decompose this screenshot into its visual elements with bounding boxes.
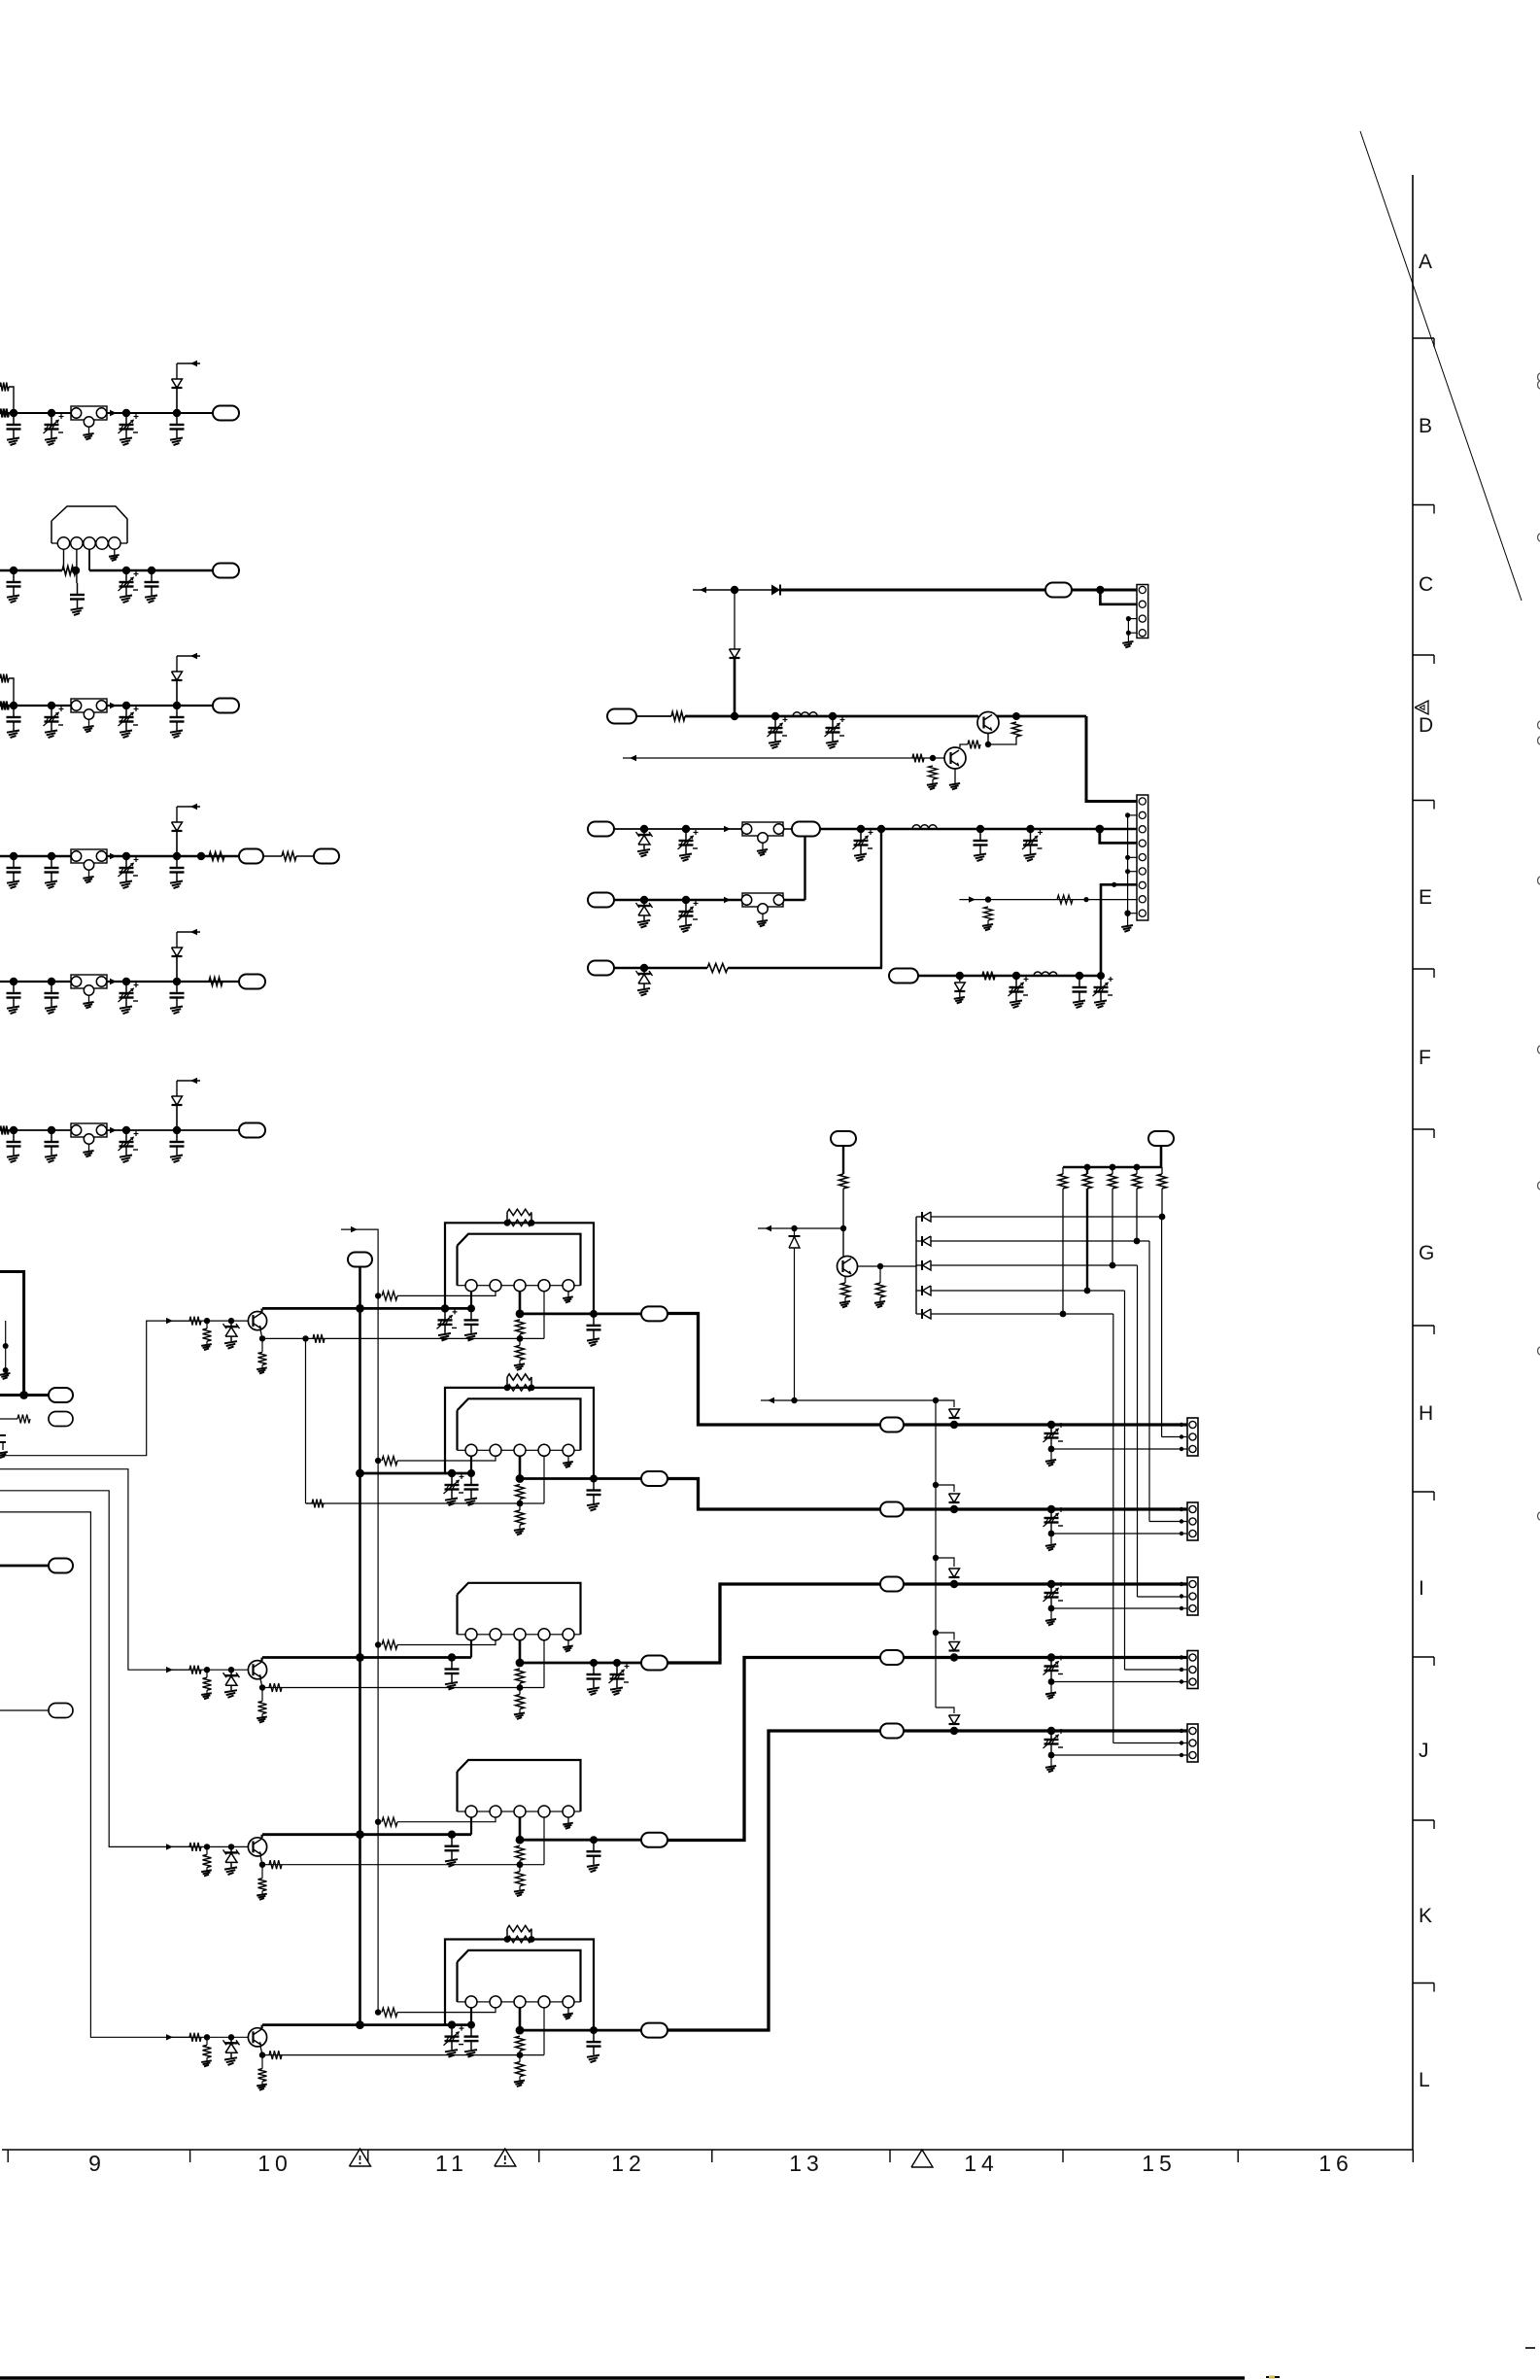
wire R19 to node [842, 1189, 844, 1228]
IC U5 pin5 circle [563, 1996, 574, 2008]
node stage4 outcap [590, 1836, 598, 1844]
page bottom right dash [1525, 2347, 1535, 2349]
svg-text:12: 12 [611, 2151, 646, 2176]
wire left pill1 feed [0, 1394, 49, 1397]
node stage3 tap [375, 1641, 381, 1647]
node row3 A [10, 702, 17, 709]
wire IC FL1 pin1 to line [63, 549, 65, 570]
wire U5 pin3 output [519, 2008, 522, 2030]
IC U2 audio amplifier outline [458, 1398, 581, 1450]
trimmer capacitor CV1 row1 [51, 413, 52, 425]
svg-text:11: 11 [435, 2151, 468, 2176]
zener diode D8 E1 [643, 829, 645, 835]
node row4 E [197, 852, 205, 860]
node stage1 base B [228, 1318, 234, 1324]
right edge cut text fragment [1538, 737, 1540, 744]
resistor Re5 emitter [261, 2055, 263, 2069]
wire row J main from amp [667, 1658, 880, 1841]
connector CN3 row H [1187, 1418, 1198, 1456]
border row tick [1413, 1983, 1434, 1984]
resistor Ro5b stage5 [519, 2055, 521, 2062]
node row6 A [10, 1126, 17, 1134]
wire row I main from amp [667, 1479, 880, 1510]
svg-text:G: G [1419, 1242, 1434, 1264]
wire bias rail vertical [377, 1295, 379, 2012]
node row1 D [173, 409, 181, 417]
wire diode D7 to D row [734, 658, 736, 716]
ceramic filter CF5 row6 [71, 1123, 107, 1137]
wire CN2 pin8 sense line [959, 899, 1137, 901]
resistor R4 row3 upper stub [0, 674, 9, 683]
capacitor C10 row4 [176, 856, 178, 868]
net label left pill3 [49, 1559, 73, 1573]
IC U2 pin4 circle [538, 1444, 550, 1456]
resistor R3 row2 on line [62, 567, 76, 575]
resistor Rf2a feedback [507, 1374, 531, 1380]
border row tick [1413, 337, 1434, 339]
wire stage1 input route [0, 1321, 189, 1456]
node row J2 var [1047, 1727, 1055, 1735]
border column tick [189, 2150, 191, 2162]
node stage3 rail [356, 1653, 364, 1662]
resistor R14 Q2 base bias [929, 766, 938, 779]
node U5 loop a [504, 1936, 511, 1943]
node D row junction main [731, 712, 738, 720]
node stage2 fb [517, 1500, 524, 1507]
wire row2 main left [0, 569, 62, 572]
net label left pill1 [49, 1388, 73, 1402]
node row6 D [173, 1126, 181, 1134]
wire U5 feedback loop [445, 1940, 594, 2031]
capacitor C4 row2 pin2 [77, 583, 79, 595]
wire Q3 base right [858, 1265, 917, 1267]
wire Q8 emitter [260, 2046, 262, 2054]
node row I2 var [1047, 1580, 1055, 1588]
IC FL1 pin5 ground stub [114, 549, 116, 555]
wire G2 riser to CN2 pin7 [1101, 884, 1114, 976]
IC U4 pin2 circle [490, 1806, 501, 1817]
zener diode D9 E2 [643, 900, 645, 906]
node stage2 pin1cap [467, 1469, 475, 1477]
border row tick [1413, 1325, 1434, 1327]
IC U3 pin3 circle [514, 1629, 526, 1640]
trimmer capacitor CV19 row I2 [1050, 1584, 1052, 1593]
node stage5 output [516, 2026, 525, 2035]
node row3 C [122, 702, 130, 709]
capacitor C7 row3 [176, 706, 178, 717]
node U2 loop b [529, 1385, 535, 1392]
right edge cut text fragment [1538, 1512, 1540, 1520]
transistor Q4 stage1 [248, 1312, 266, 1330]
border row tick [1413, 800, 1434, 802]
diode D2 row3 with takeoff arrow [176, 680, 178, 706]
trimmer capacitor CV8 row6 [125, 1130, 127, 1142]
node H feed B [933, 1397, 939, 1403]
net label E1 input [588, 822, 614, 837]
trimmer capacitor CV17 row H [1050, 1425, 1052, 1433]
zener diode Dz3 base [230, 1670, 232, 1675]
capacitor Co3 stage3 [593, 1663, 595, 1674]
wire staircase jog 4 [936, 1707, 954, 1713]
resistor R10 D row [671, 712, 685, 721]
svg-text:C: C [1419, 573, 1433, 596]
wire stage1 collector line [262, 1307, 471, 1310]
svg-text:J: J [1419, 1740, 1429, 1762]
IC U3 pin5 ground stub [567, 1640, 569, 1646]
wire U4 pin3 output [519, 1817, 522, 1840]
IC U5 pin3 circle [514, 1996, 526, 2008]
wire left stub vertical [5, 1321, 7, 1373]
node E1 B [682, 825, 690, 833]
resistor Rb4b base bias [206, 1846, 208, 1854]
border column tick [367, 2150, 369, 2162]
resistor R34 emitter series [269, 1860, 282, 1869]
right edge cut text fragment [1538, 1182, 1540, 1190]
capacitor Cs4a [451, 1835, 453, 1846]
node stage3 outvar [613, 1659, 621, 1667]
node E1 to F drop [877, 825, 885, 833]
resistor R13 Q2 base [912, 754, 924, 763]
resistor R15 pin8 bias [984, 907, 993, 920]
connector CN2 9pin [1137, 795, 1148, 920]
IC FL1 pin 1 circle [57, 537, 69, 549]
trimmer capacitor CVo3 [616, 1663, 618, 1674]
border row tick [1413, 1491, 1434, 1493]
svg-text:F: F [1419, 1047, 1431, 1069]
node stage1 base A [204, 1318, 210, 1324]
IC FL1 pin 5 circle [109, 537, 120, 549]
signal arrow row6 [110, 1127, 117, 1133]
connector CN6 row J [1187, 1651, 1198, 1689]
node row4 C [122, 852, 130, 860]
wire diode D16 run [931, 1290, 1125, 1292]
transistor Q1 D row [977, 712, 999, 734]
svg-text:B: B [1419, 415, 1432, 437]
node C row at connector [1096, 586, 1104, 594]
trimmer capacitor CVs1 [444, 1308, 446, 1320]
resistor R16 pin8 series [1057, 895, 1073, 904]
wire U3 pin1 lead [470, 1640, 472, 1658]
signal arrow row5 [110, 979, 117, 984]
node stage1 rail [356, 1304, 364, 1313]
border frame right vertical line [1412, 175, 1414, 2150]
resistor Re3 emitter [261, 1688, 263, 1702]
svg-text:10: 10 [257, 2151, 292, 2176]
inductor L3 G2 [1034, 972, 1042, 976]
node pin8 line B [1083, 897, 1088, 902]
signal arrow row4 [110, 853, 117, 859]
connector CN5 row I2 [1187, 1577, 1198, 1615]
wire Q4 collector [261, 1308, 263, 1311]
node stage3 fb [517, 1684, 524, 1691]
node stage2 incap [448, 1469, 456, 1477]
node stage2 tap [375, 1458, 381, 1464]
inductor L2 E1 [912, 825, 920, 829]
resistor Ro3a stage3 [516, 1669, 525, 1683]
IC FL1 pin 2 circle [71, 537, 83, 549]
wire Q8 collector [261, 2025, 263, 2028]
svg-text:H: H [1419, 1402, 1433, 1425]
resistor R1 row1 upper stub [0, 383, 9, 392]
resistor R30 stage1 pin4 [313, 1334, 325, 1343]
node row1 A [10, 409, 17, 417]
border column tick [538, 2150, 540, 2162]
wire diode D17 run [931, 1313, 1113, 1315]
svg-text:E: E [1419, 886, 1432, 909]
resistor R9 row6 on line [0, 1126, 9, 1135]
resistor Ro2b stage2 [519, 1503, 521, 1510]
net label row J [880, 1650, 904, 1665]
zener diode Dz1 base [230, 1321, 232, 1327]
net label row I2 [880, 1577, 904, 1592]
capacitor C15 row6 [51, 1130, 52, 1142]
signal arrow row3 [110, 703, 117, 708]
capacitor Co4 stage4 [593, 1840, 595, 1851]
border row tick [1413, 1656, 1434, 1658]
resistor Rb4a base series [189, 1843, 201, 1851]
wire staircase jog 2 [933, 1555, 939, 1561]
node stage1 tap [375, 1293, 381, 1298]
wire stage3 input route [0, 1469, 189, 1671]
IC U5 audio amplifier outline [458, 1950, 581, 2002]
border column tick [7, 2150, 9, 2162]
node diode run 5 [1060, 1311, 1067, 1318]
wire E1 after pill [783, 828, 792, 830]
wire D row elbow to CN2 pin1 [1086, 716, 1137, 802]
wire row J to connector [904, 1656, 1187, 1659]
net label G pill left [831, 1131, 856, 1146]
wire E2 riser [804, 836, 805, 900]
wire G horizontal 1264 [758, 1227, 843, 1229]
wire E2 filter to riser [783, 899, 805, 901]
node stage2 output [516, 1474, 525, 1483]
node row I pin1 tick [1180, 1507, 1183, 1511]
capacitor C11 row5 [13, 982, 15, 993]
trimmer capacitor CV15 G2 [1015, 976, 1017, 987]
node stage3 base B [228, 1667, 234, 1673]
border row tick [1413, 654, 1434, 656]
resistor Rf1a feedback [507, 1209, 531, 1215]
node row J2 pin1 tick [1180, 1729, 1183, 1733]
trimmer capacitor CV14 E2 [685, 900, 687, 912]
warning triangle marker 1 [350, 2149, 371, 2166]
border row tick [1413, 1819, 1434, 1821]
wire stage5 input route [0, 1512, 189, 2037]
capacitor C16 row6 [176, 1130, 178, 1142]
wire U1 feedback loop [445, 1223, 594, 1314]
resistor R24 bank [1112, 1167, 1113, 1174]
node E1 connector junction [1095, 825, 1104, 834]
connector CN7 row J2 [1187, 1724, 1198, 1762]
resistor R25 bank [1136, 1167, 1138, 1174]
wire U4 pin1 lead [470, 1817, 472, 1835]
wire Q4 emitter [260, 1329, 262, 1338]
wire stage2 pin4 corner [306, 1502, 313, 1504]
svg-text:14: 14 [964, 2151, 999, 2176]
wire U2 pin4 line [306, 1502, 544, 1504]
IC U5 pin2 circle [490, 1996, 501, 2008]
capacitor C19 left edge fragment [0, 1434, 6, 1436]
right edge cut text fragment [1538, 373, 1540, 381]
wire row I2 to connector [904, 1582, 1187, 1585]
ceramic filter CF1 row1 [71, 406, 107, 420]
wire G2 main [918, 975, 1101, 977]
capacitor C1 row1 [13, 413, 15, 425]
node F A [640, 964, 648, 972]
resistor Ro5a stage5 [516, 2036, 525, 2051]
node stage3 outcap [590, 1659, 598, 1667]
node stage1 output [516, 1310, 525, 1319]
node H feed A [791, 1397, 797, 1403]
wire D row mid [685, 715, 978, 718]
transistor Q7 stage4 [248, 1838, 266, 1856]
wire row4 main [0, 855, 239, 858]
wire C to D vertical [734, 590, 736, 649]
diode D21 row J [949, 1642, 960, 1651]
capacitor C2 row1 [176, 413, 178, 425]
capacitor Co1 stage1 [593, 1314, 595, 1326]
node row4 A [10, 852, 17, 860]
node row2 A [10, 567, 17, 574]
wire Q3 emitter [844, 1277, 846, 1284]
signal arrow E2 [724, 897, 731, 903]
node U2 loop a [504, 1385, 511, 1392]
resistor R23 bank [1086, 1167, 1088, 1174]
wire left pill4 feed [0, 1709, 49, 1711]
wire IC FL1 pin2 down [76, 549, 78, 583]
right edge cut text fragment [1538, 381, 1540, 389]
resistor R20 Q3 emitter [841, 1283, 850, 1297]
resistor R5 row3 on line [0, 702, 9, 710]
border row tick [1413, 968, 1434, 970]
node stage4 tap [375, 1819, 381, 1825]
wire staircase jog 1 [933, 1482, 939, 1488]
wire Q7 collector [261, 1835, 263, 1838]
wire row3 main [0, 705, 213, 707]
wire diode D13 run [931, 1216, 1162, 1218]
resistor R19 G chain [839, 1174, 848, 1189]
IC U3 pin2 circle [490, 1629, 501, 1640]
wire U5 pin4 line [262, 2054, 544, 2056]
node row3 D [173, 702, 181, 709]
net label D row input [607, 709, 636, 724]
node stage5 tap [375, 2009, 381, 2015]
wire CN1 pin3 ground tie [1128, 618, 1137, 620]
resistor Rb1a base series [189, 1317, 201, 1326]
IC U2 pin5 circle [563, 1444, 574, 1456]
trimmer capacitor CV5 row3 [125, 706, 127, 717]
diode D19 row I [949, 1494, 960, 1502]
wire F main [614, 967, 707, 969]
IC FL1 block row2 [51, 506, 127, 543]
IC U3 audio amplifier outline [458, 1583, 581, 1635]
net label row4 output [314, 849, 339, 864]
trimmer capacitor CV11 E1 [685, 829, 687, 841]
diode D3 row4 with takeoff arrow [176, 831, 178, 856]
node stage3 emitter [259, 1684, 265, 1690]
wire E1 main [614, 828, 742, 830]
wire stage1 tap to pin2 [397, 1291, 496, 1295]
resistor R12 interstage [968, 741, 980, 749]
node stage1 emitter tap [302, 1335, 308, 1341]
node G2 C [1076, 972, 1083, 980]
resistor Rt1 stage1 input tap [382, 1292, 397, 1300]
capacitor C17 E1 [979, 829, 981, 841]
trimmer capacitor CV12 E1 [860, 829, 862, 841]
node stage1 pin1cap [467, 1304, 475, 1312]
node E2 A [640, 896, 648, 904]
IC U4 pin4 circle [538, 1806, 550, 1817]
IC U1 pin5 circle [563, 1280, 574, 1292]
wire Q2 base line [623, 757, 944, 759]
border row tick [1413, 504, 1434, 506]
node diode run 2 [1134, 1238, 1141, 1245]
wire Q1 collector to elbow [997, 715, 1086, 718]
wire resistor bank rail [1063, 1166, 1162, 1169]
wire Q6 base line [171, 1669, 248, 1671]
right edge cut text fragment [1538, 877, 1540, 884]
node stage5 emitter [259, 2052, 265, 2057]
IC U5 pin5 ground stub [567, 2008, 569, 2014]
wire bundle vertical 5 [1112, 1314, 1114, 1743]
wire stage2 tap to pin2 [397, 1456, 496, 1461]
wire G pill right stub [1160, 1146, 1163, 1167]
node D row var2 [829, 712, 837, 720]
net label stage2 output [641, 1471, 667, 1486]
capacitor C18 G2 [1078, 976, 1080, 987]
diode D13 bank [916, 1216, 922, 1218]
resistor R6 row4 [209, 852, 224, 861]
border column tick [711, 2150, 713, 2162]
resistor R22 bank [1062, 1167, 1064, 1174]
node row3 B [48, 702, 55, 709]
wire diode D14 run [931, 1240, 1149, 1242]
node G2 D [1097, 972, 1105, 980]
page bottom heavy rule [0, 2376, 1245, 2379]
IC U5 pin1 circle [465, 1996, 477, 2008]
wire Q4 base line [171, 1320, 248, 1322]
node row1 B [48, 409, 55, 417]
border column tick [1062, 2150, 1064, 2162]
wire stage4 tap to pin2 [397, 1817, 496, 1822]
warning triangle marker 3 [911, 2150, 933, 2167]
transistor Q3 G region [838, 1257, 858, 1277]
border row tick [1413, 1128, 1434, 1130]
trimmer capacitor CV7 row5 [125, 982, 127, 993]
diode D12 G drop [794, 1228, 796, 1236]
net label row3 output [213, 699, 239, 713]
node stage1 fb [517, 1335, 524, 1342]
ceramic filter CF2 row3 [71, 699, 107, 712]
node row5 C [122, 978, 130, 985]
wire G pill stub [842, 1146, 844, 1174]
resistor Ro3b stage3 [519, 1688, 521, 1695]
border frame bottom scale line [2, 2149, 1413, 2151]
resistor Rf5b feedback [507, 1936, 531, 1942]
resistor Rt2 stage2 input tap [382, 1457, 397, 1466]
IC U4 pin5 circle [563, 1806, 574, 1817]
IC U1 pin1 circle [465, 1280, 477, 1292]
node G 1264 B [840, 1225, 846, 1231]
net label row I [880, 1502, 904, 1517]
net label stage5 output [641, 2023, 667, 2038]
wire U1 pin3 output [519, 1292, 522, 1314]
net label power rail pill [348, 1253, 372, 1267]
wire IC FL1 pin3 down and main right [88, 549, 90, 570]
node E1 var2 [1026, 825, 1034, 833]
node pin8 line A [985, 896, 991, 902]
diode D6 C row [771, 585, 780, 596]
